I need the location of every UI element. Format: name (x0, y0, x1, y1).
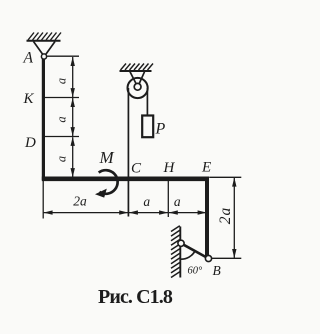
vertical member A-D-corner (42, 59, 45, 180)
svg-text:a: a (54, 156, 68, 162)
svg-text:P: P (155, 121, 166, 138)
tick at B level (right dim) (212, 257, 241, 259)
fixed pin support at A: hatching (28, 33, 61, 41)
pulley hub (134, 83, 141, 90)
svg-text:2a: 2a (73, 194, 87, 209)
fixed pin support at A: ceiling line (27, 40, 61, 42)
pin circle at A (41, 54, 46, 59)
wall pin circle (178, 240, 184, 246)
svg-text:K: K (23, 91, 35, 107)
bottom dimension 2a (left end to C) (43, 210, 128, 214)
svg-text:C: C (131, 161, 142, 177)
bottom dimension a (C to H) (129, 210, 169, 214)
moment M arrowhead (95, 189, 107, 198)
wall hatching (bottom right) (171, 226, 180, 278)
svg-text:Рис. С1.8: Рис. С1.8 (98, 286, 173, 308)
extension line below beam at left end (42, 181, 44, 219)
moment M arc (99, 170, 118, 194)
dimension arrow a (D to beam) (71, 137, 75, 178)
tick at A level (47, 55, 79, 57)
angle arc 60 deg (181, 251, 195, 259)
svg-text:60°: 60° (188, 266, 204, 277)
bottom dimension a (H to E) (169, 210, 207, 214)
svg-text:a: a (143, 194, 150, 209)
horizontal beam (42, 177, 209, 182)
link rod pin to B (181, 243, 209, 258)
svg-text:A: A (23, 50, 34, 67)
svg-text:E: E (201, 160, 211, 176)
dimension arrow a (K to D) (71, 98, 75, 137)
pulley bracket (130, 72, 145, 85)
weight P rectangle (142, 116, 153, 138)
vertical member E-B (205, 177, 209, 257)
svg-text:B: B (213, 263, 221, 278)
pulley ceiling hatching (121, 64, 154, 71)
svg-text:a: a (54, 116, 68, 122)
svg-text:a: a (54, 78, 68, 84)
right dimension 2a (E to B) (232, 177, 236, 258)
pin circle at B (205, 255, 211, 261)
tick at E level (right dim) (209, 176, 241, 178)
fixed pin support at A: hanger triangle (34, 42, 56, 55)
svg-text:D: D (24, 135, 36, 151)
svg-text:a: a (174, 194, 181, 209)
svg-text:H: H (163, 160, 176, 176)
dimension arrow a (A to K) (71, 57, 75, 98)
pulley wheel (128, 78, 148, 98)
svg-text:M: M (99, 148, 115, 167)
rope left side (pulley to C) (127, 88, 129, 217)
tick at K level (43, 97, 79, 99)
svg-text:2a: 2a (217, 207, 234, 225)
extension line below beam at H (167, 181, 169, 218)
rope right side (pulley to weight) (146, 88, 148, 116)
pulley ceiling line (120, 70, 152, 72)
tick at D level (43, 136, 79, 138)
wall line (179, 227, 181, 278)
